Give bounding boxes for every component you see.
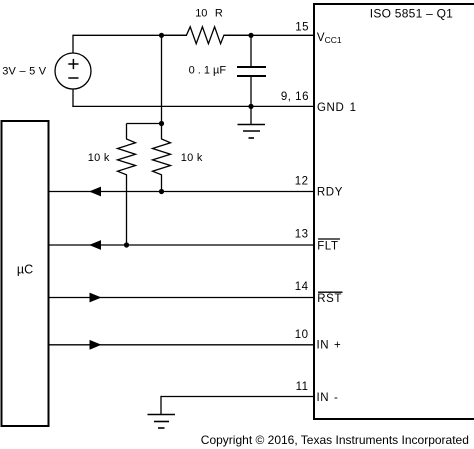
microcontroller uC box [2, 121, 49, 426]
ground symbol at IN- [148, 415, 176, 429]
wire: FLT net [49, 244, 315, 246]
junction dot on RDY at R3 [159, 189, 164, 194]
minus sign inside source [68, 77, 78, 79]
svg-text:10 k: 10 k [181, 152, 203, 164]
wire: RST net [49, 297, 315, 299]
svg-text:9, 16: 9, 16 [281, 91, 309, 103]
wire: vertical branch from Vcc rail to pullups [161, 35, 163, 123]
wire: pullup top tie bar [127, 123, 162, 125]
svg-text:RDY: RDY [317, 187, 343, 199]
svg-text:FLT: FLT [317, 241, 338, 253]
svg-text:10 k: 10 k [88, 152, 110, 164]
svg-text:GND 1: GND 1 [317, 102, 357, 114]
wire: IN- net [161, 396, 314, 398]
wire: source top lead [72, 36, 74, 53]
resistor R3 10k (right pullup) [153, 124, 171, 192]
junction dot on Vcc rail at C1 [248, 33, 253, 38]
arrow toward IC on RST [90, 293, 102, 303]
junction dot at pullup tie [159, 121, 164, 126]
arrow into uC on RDY [89, 187, 101, 197]
capacitor C1 0.1uF top lead [250, 35, 252, 67]
junction dot on FLT at R2 [124, 242, 129, 247]
svg-text:RST: RST [317, 293, 342, 305]
junction dot on GND rail at C1 [248, 104, 253, 109]
wire: top Vcc rail left of R1 [72, 34, 186, 36]
svg-text:IN -: IN - [317, 392, 339, 404]
ground symbol at C1 [238, 125, 266, 139]
FLT overline [318, 238, 340, 240]
resistor R2 10k (left pullup) [118, 124, 136, 246]
wire: RDY net [49, 191, 315, 193]
capacitor C1 bottom lead [250, 76, 252, 106]
svg-text:Copyright © 2016, Texas Instru: Copyright © 2016, Texas Instruments Inco… [201, 433, 469, 447]
resistor R1 10R [162, 27, 252, 44]
svg-text:3V – 5 V: 3V – 5 V [2, 66, 47, 78]
wire: top Vcc rail right of R1 [224, 34, 314, 36]
svg-text:0 . 1 µF: 0 . 1 µF [189, 64, 227, 76]
svg-text:10: 10 [195, 8, 207, 20]
wire: IN- ground stem [160, 396, 162, 415]
arrow toward IC on IN+ [90, 340, 102, 350]
svg-text:10: 10 [295, 329, 309, 341]
svg-text:µC: µC [17, 263, 33, 277]
svg-text:R: R [215, 8, 223, 20]
voltage source V1 3V-5V [55, 53, 91, 89]
capacitor C1 plates [237, 67, 266, 76]
junction dot on Vcc rail at branch [159, 33, 164, 38]
wire: GND rail [72, 105, 314, 107]
ground stem below C1 [250, 106, 252, 124]
arrow into uC on FLT [89, 240, 101, 250]
svg-text:13: 13 [295, 228, 309, 240]
svg-text:ISO 5851 – Q1: ISO 5851 – Q1 [370, 6, 453, 20]
RST overline [318, 291, 343, 293]
svg-text:12: 12 [295, 176, 309, 188]
svg-text:15: 15 [295, 21, 309, 33]
svg-text:11: 11 [296, 381, 309, 393]
IC U1 ISO5851-Q1 box [313, 4, 474, 419]
svg-text:VCC1: VCC1 [317, 32, 342, 45]
svg-text:IN +: IN + [317, 340, 342, 352]
svg-text:14: 14 [295, 281, 309, 293]
wire: IN+ net [49, 344, 315, 346]
plus sign inside source [68, 59, 78, 69]
wire: source bottom lead [72, 89, 74, 107]
